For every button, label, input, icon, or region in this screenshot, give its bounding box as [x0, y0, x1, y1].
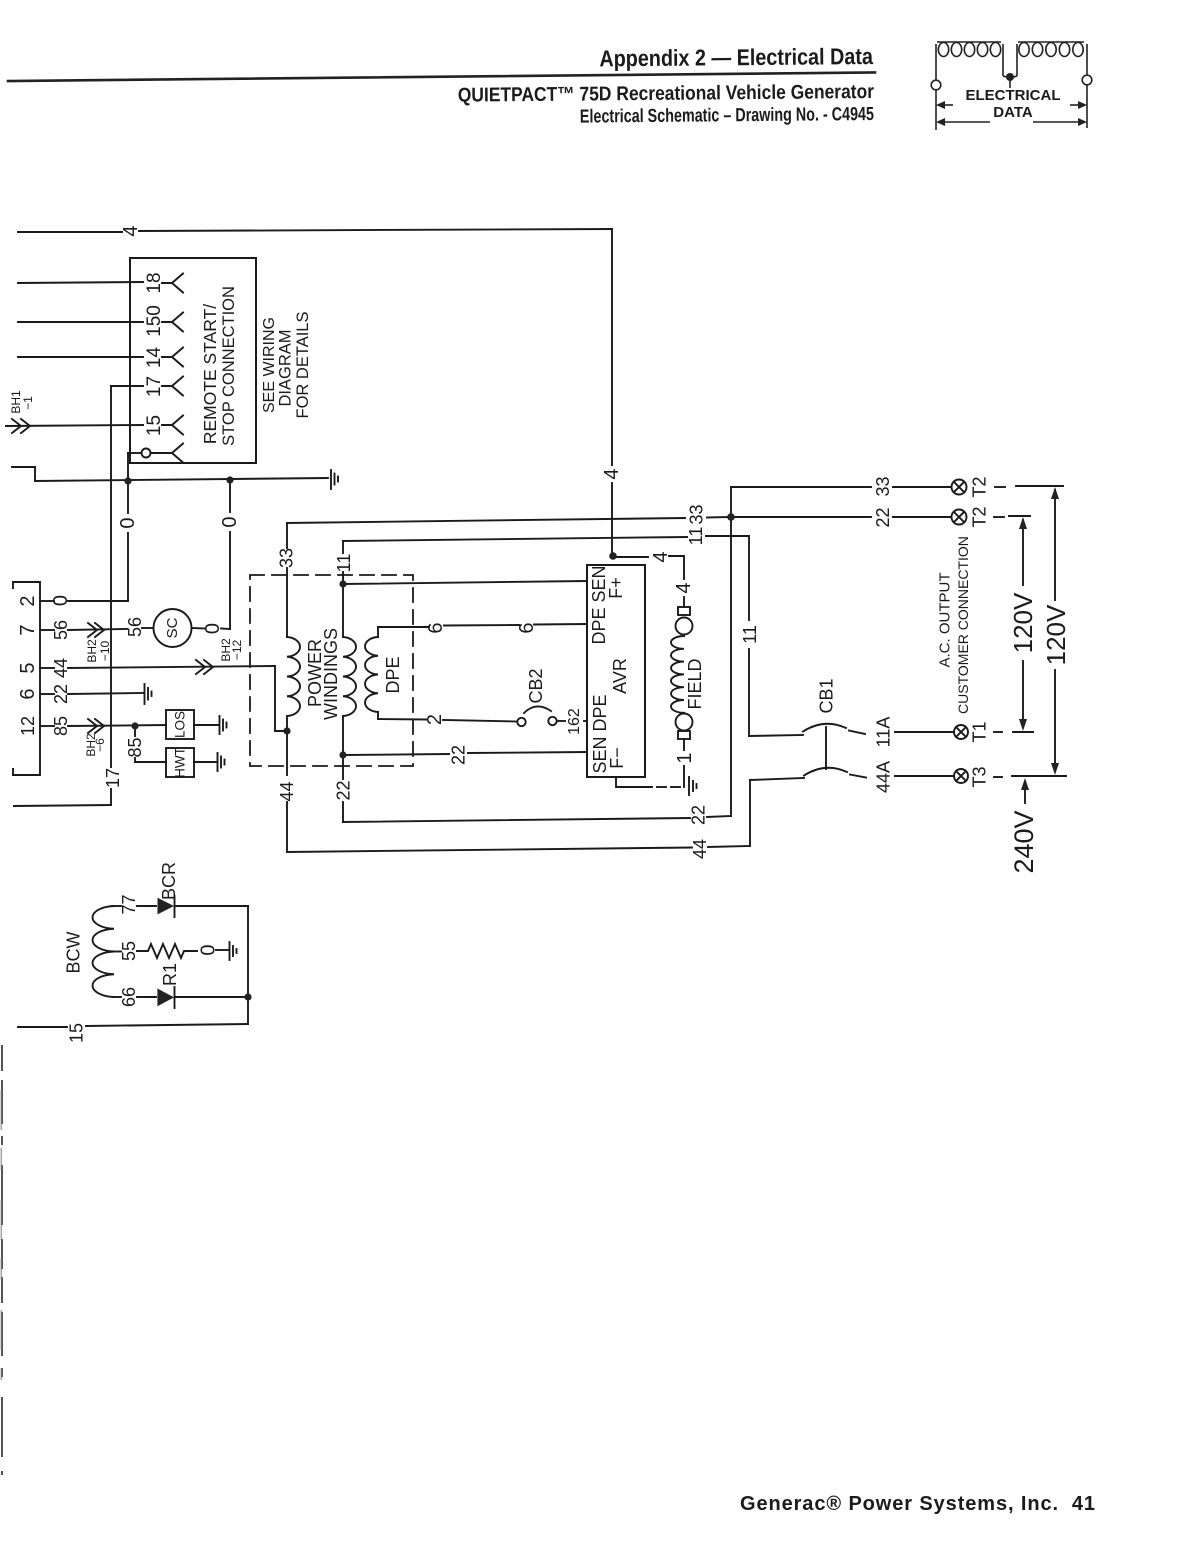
- svg-text:7: 7: [17, 624, 39, 635]
- svg-text:T2: T2: [970, 506, 990, 527]
- svg-text:5: 5: [17, 662, 39, 673]
- svg-text:4: 4: [673, 582, 695, 593]
- svg-text:22: 22: [689, 805, 709, 825]
- svg-text:CB1: CB1: [817, 678, 837, 713]
- svg-text:33: 33: [277, 548, 297, 568]
- svg-text:22: 22: [51, 684, 71, 704]
- svg-text:22: 22: [449, 745, 469, 765]
- svg-text:44A: 44A: [874, 761, 894, 793]
- svg-text:0: 0: [50, 595, 72, 606]
- svg-text:2: 2: [17, 595, 39, 606]
- svg-text:85: 85: [125, 737, 145, 757]
- svg-text:15: 15: [67, 1023, 87, 1043]
- svg-text:240V: 240V: [1009, 810, 1039, 873]
- svg-text:17: 17: [103, 768, 123, 788]
- svg-text:12: 12: [18, 716, 38, 736]
- svg-text:DATA: DATA: [993, 104, 1033, 121]
- svg-text:ELECTRICAL: ELECTRICAL: [966, 87, 1061, 104]
- svg-text:85: 85: [51, 716, 71, 736]
- svg-text:11: 11: [686, 527, 706, 546]
- svg-text:−1: −1: [21, 396, 35, 410]
- svg-text:6: 6: [425, 622, 447, 633]
- svg-text:SEE WIRING: SEE WIRING: [261, 317, 278, 413]
- svg-text:11A: 11A: [874, 717, 894, 748]
- svg-text:Appendix 2 — Electrical Data: Appendix 2 — Electrical Data: [599, 44, 874, 72]
- svg-text:T3: T3: [970, 766, 990, 787]
- svg-text:−12: −12: [230, 639, 244, 660]
- svg-text:−6: −6: [93, 738, 107, 752]
- svg-text:F+: F+: [606, 577, 626, 599]
- svg-text:T2: T2: [970, 476, 990, 497]
- svg-text:120V: 120V: [1041, 604, 1071, 665]
- svg-text:Electrical Schematic – Drawing: Electrical Schematic – Drawing No. - C49…: [580, 103, 874, 127]
- svg-text:44: 44: [690, 839, 710, 859]
- svg-text:66: 66: [119, 987, 139, 1007]
- svg-text:11: 11: [334, 554, 354, 573]
- svg-text:BH2: BH2: [85, 639, 99, 663]
- svg-text:11: 11: [740, 625, 760, 644]
- svg-text:18: 18: [144, 272, 165, 293]
- svg-text:22: 22: [873, 507, 893, 527]
- svg-text:LOS: LOS: [173, 711, 188, 738]
- svg-text:−10: −10: [98, 640, 112, 661]
- svg-text:120V: 120V: [1008, 592, 1038, 653]
- svg-text:SC: SC: [164, 617, 181, 638]
- svg-text:WINDINGS: WINDINGS: [321, 628, 341, 720]
- svg-text:4: 4: [120, 225, 142, 236]
- svg-text:4: 4: [601, 468, 623, 479]
- svg-text:33: 33: [687, 504, 707, 524]
- svg-text:DPE: DPE: [383, 656, 403, 693]
- svg-text:BCR: BCR: [159, 862, 179, 900]
- svg-text:REMOTE START/: REMOTE START/: [200, 304, 220, 444]
- svg-text:FOR DETAILS: FOR DETAILS: [294, 312, 312, 419]
- svg-text:DIAGRAM: DIAGRAM: [277, 329, 295, 406]
- svg-text:162: 162: [566, 708, 583, 735]
- svg-text:CUSTOMER CONNECTION: CUSTOMER CONNECTION: [955, 536, 971, 714]
- svg-text:BCW: BCW: [64, 931, 84, 973]
- svg-text:15: 15: [144, 415, 165, 436]
- svg-text:2: 2: [424, 714, 446, 725]
- svg-text:4: 4: [650, 551, 672, 562]
- svg-text:150: 150: [144, 305, 165, 337]
- svg-text:STOP CONNECTION: STOP CONNECTION: [220, 286, 238, 446]
- svg-text:77: 77: [119, 894, 139, 914]
- svg-text:FIELD: FIELD: [685, 658, 705, 709]
- svg-text:0: 0: [198, 944, 220, 955]
- svg-text:44: 44: [277, 781, 297, 801]
- svg-text:6: 6: [516, 622, 538, 633]
- svg-text:14: 14: [144, 347, 165, 369]
- svg-text:55: 55: [119, 941, 139, 961]
- svg-text:1: 1: [674, 752, 696, 763]
- svg-text:17: 17: [144, 376, 165, 397]
- svg-text:0: 0: [117, 517, 139, 528]
- svg-text:56: 56: [125, 617, 145, 637]
- svg-text:6: 6: [17, 688, 39, 699]
- svg-text:0: 0: [202, 623, 224, 634]
- svg-text:AVR: AVR: [610, 658, 630, 694]
- svg-text:A.C. OUTPUT: A.C. OUTPUT: [937, 572, 954, 667]
- svg-text:F−: F−: [607, 747, 627, 769]
- svg-text:HWT: HWT: [173, 747, 188, 778]
- svg-text:R1: R1: [160, 963, 180, 986]
- svg-text:Generac® Power Systems, Inc.: Generac® Power Systems, Inc. 41: [740, 1493, 1096, 1515]
- svg-text:QUIETPACT™ 75D Recreational Ve: QUIETPACT™ 75D Recreational Vehicle Gene…: [458, 80, 875, 106]
- svg-text:CB2: CB2: [526, 668, 546, 703]
- svg-text:0: 0: [219, 516, 241, 527]
- svg-text:22: 22: [334, 780, 354, 800]
- svg-text:56: 56: [51, 620, 71, 640]
- svg-text:T1: T1: [970, 721, 990, 742]
- svg-text:33: 33: [873, 476, 893, 496]
- svg-text:44: 44: [51, 658, 71, 678]
